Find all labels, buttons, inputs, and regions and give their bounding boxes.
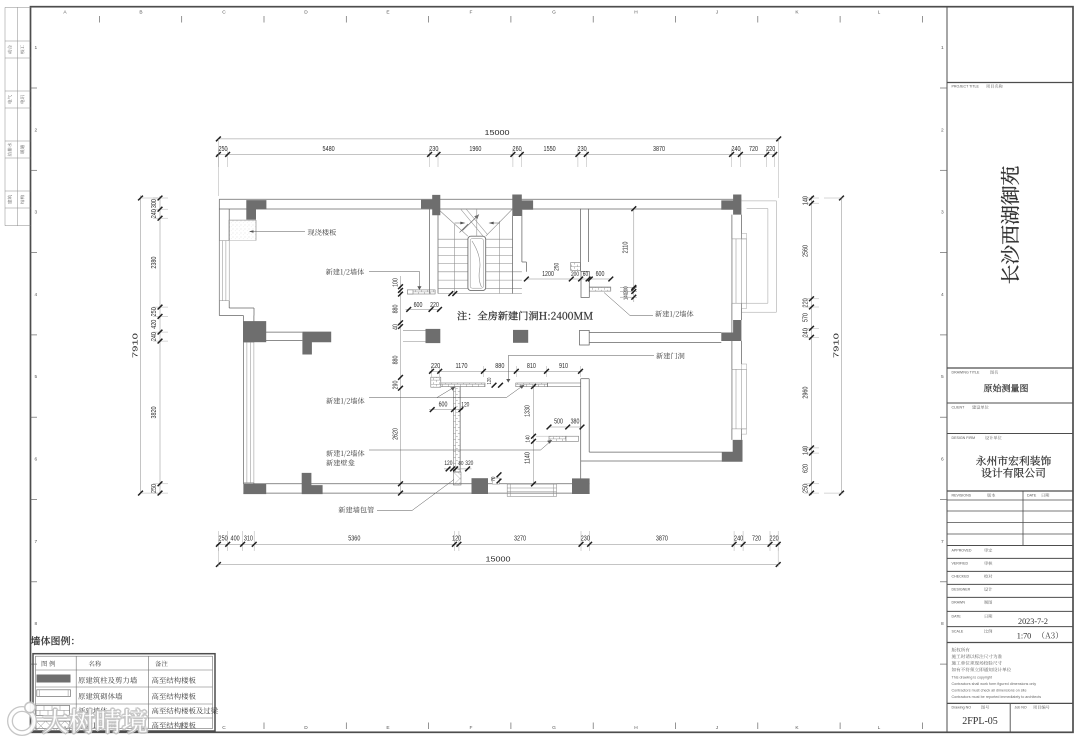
svg-text:G: G	[552, 725, 556, 731]
svg-text:DRAWING TITLE: DRAWING TITLE	[952, 371, 981, 375]
new 1/2 wall near stair (hatch E)	[407, 290, 435, 294]
new 1/2 wall F (top-right room)	[589, 287, 611, 291]
svg-text:140: 140	[801, 446, 810, 455]
bottom-right room bottom wall	[589, 451, 742, 453]
stair left wall	[429, 209, 431, 294]
svg-text:Contractors must check all dim: Contractors must check all dimensions on…	[952, 689, 1027, 693]
svg-text:7: 7	[941, 539, 944, 545]
svg-text:1:70: 1:70	[1017, 631, 1032, 640]
chain 2110 top-right room	[633, 209, 635, 289]
svg-text:5480: 5480	[323, 144, 335, 153]
new wall A left end block	[431, 377, 441, 387]
grid dash marks right	[940, 87, 947, 89]
column top-left	[246, 200, 266, 220]
middle wall end cap square	[580, 330, 590, 345]
svg-text:250: 250	[219, 534, 228, 543]
svg-text:220: 220	[770, 534, 779, 543]
exterior top wall	[219, 198, 741, 200]
svg-text:1330: 1330	[525, 405, 532, 417]
column mid small (near middle wall opening)	[513, 330, 528, 343]
new wall A (left of door opening)	[441, 383, 485, 387]
label 新建1/2墙体 (left-mid) with leader	[326, 397, 364, 404]
watermark bottom-left	[10, 702, 149, 735]
svg-text:L: L	[878, 9, 881, 15]
exterior bottom wall of left room	[243, 483, 589, 485]
stair flight lines	[461, 210, 483, 237]
title block: drawing title section	[947, 367, 1073, 369]
svg-text:250: 250	[218, 144, 227, 153]
svg-text:VERIFIED: VERIFIED	[952, 562, 969, 566]
svg-text:230: 230	[581, 534, 590, 543]
svg-text:E: E	[386, 725, 389, 731]
column gamma mid-left	[302, 332, 331, 355]
chain 1330/140/1140 right of wall C	[533, 387, 535, 484]
svg-text:1: 1	[941, 45, 944, 51]
svg-text:100: 100	[392, 278, 399, 287]
svg-text:120: 120	[452, 534, 461, 543]
label 新建墙包管 with leader	[339, 506, 374, 513]
svg-text:120: 120	[487, 378, 493, 385]
svg-text:230: 230	[578, 144, 587, 153]
svg-text:220: 220	[431, 361, 440, 370]
svg-text:600: 600	[414, 302, 423, 309]
svg-text:G: G	[552, 9, 556, 15]
svg-text:200: 200	[624, 286, 630, 293]
window left upper	[218, 241, 220, 301]
svg-text:7: 7	[35, 539, 38, 545]
left wall step	[229, 307, 254, 309]
svg-text:240: 240	[149, 209, 158, 218]
svg-text:D: D	[304, 9, 308, 15]
svg-text:140: 140	[624, 293, 630, 300]
title block: project title section	[947, 82, 1073, 84]
title block: design firm section	[947, 433, 1073, 435]
svg-text:6: 6	[941, 457, 944, 463]
svg-text:200: 200	[571, 271, 579, 278]
stair direction arrows	[455, 222, 500, 224]
balcony top-right outline	[741, 201, 776, 312]
small frame box left of window	[492, 478, 499, 484]
new 1/2 wall C vertical (ladder hatch)	[453, 387, 460, 472]
column stair-right	[512, 195, 533, 217]
svg-text:220: 220	[766, 144, 775, 153]
stair treads	[438, 238, 513, 240]
wall stub left of center column	[403, 330, 426, 332]
svg-text:DESIGN FIRM: DESIGN FIRM	[952, 436, 976, 440]
window right upper jambs	[741, 234, 746, 239]
svg-text:250: 250	[149, 307, 158, 316]
svg-text:240: 240	[734, 534, 743, 543]
horizontal chain 220/1170/880/810/910	[430, 370, 583, 372]
svg-text:220: 220	[801, 298, 810, 307]
label 新建1/2墙体 / 新建壁龛 with leaders	[326, 450, 364, 457]
svg-text:5: 5	[35, 374, 38, 380]
svg-text:880: 880	[392, 305, 399, 314]
project title text 长沙西湖御苑 (rotated)	[1001, 166, 1019, 283]
svg-text:SCALE: SCALE	[952, 630, 964, 634]
column left-wall middle	[243, 321, 266, 342]
svg-text:Job NO: Job NO	[1015, 706, 1027, 710]
tiny dim 120 in door opening	[492, 383, 497, 388]
svg-text:2380: 2380	[149, 257, 158, 269]
svg-text:F: F	[470, 9, 473, 15]
svg-text:3270: 3270	[514, 534, 526, 543]
svg-text:230: 230	[429, 144, 438, 153]
column center	[426, 329, 441, 343]
niche wall D (新建壁龛)	[549, 436, 566, 441]
svg-text:60: 60	[583, 271, 589, 278]
svg-text:8: 8	[941, 621, 944, 627]
svg-text:720: 720	[749, 144, 758, 153]
window left lower	[242, 342, 244, 483]
legend row3: new wall (brick hatch)	[36, 706, 70, 716]
svg-text:380: 380	[571, 419, 580, 426]
legend heading 墙体图例	[31, 636, 74, 645]
title block left boundary	[946, 7, 948, 733]
svg-text:3870: 3870	[656, 534, 668, 543]
left dimension total 7910	[140, 195, 142, 493]
stair newel	[468, 236, 486, 290]
svg-text:DATE: DATE	[1027, 494, 1037, 498]
column stair-left	[421, 195, 440, 215]
grid dash marks left	[31, 87, 38, 89]
svg-text:1: 1	[35, 45, 38, 51]
svg-text:DATE: DATE	[952, 615, 962, 619]
window right lower jambs	[741, 364, 746, 369]
svg-text:Contractors must be reported i: Contractors must be reported immediately…	[952, 695, 1042, 699]
interior wall left-middle (y=332..341)	[254, 331, 303, 333]
svg-text:250: 250	[554, 262, 561, 270]
stair flight diagonals	[438, 209, 468, 236]
small dims 200/140 near hatch F	[633, 289, 635, 303]
title block: copyright notes	[947, 642, 1073, 644]
svg-text:600: 600	[596, 271, 605, 278]
legend row1: original column/shear wall	[37, 675, 71, 683]
chain 500/380 above niche	[549, 426, 582, 428]
title block: drawing number section	[947, 702, 1073, 704]
interior vertical chain x=400	[400, 276, 402, 493]
svg-text:2: 2	[35, 127, 38, 133]
svg-text:720: 720	[752, 534, 761, 543]
svg-text:15000: 15000	[485, 128, 510, 137]
svg-text:D: D	[304, 725, 308, 731]
svg-text:H: H	[634, 9, 638, 15]
pipe-wrap wall H (新建墙包管)	[453, 472, 461, 485]
svg-text:1200: 1200	[542, 271, 554, 278]
svg-text:140: 140	[526, 435, 532, 442]
svg-text:DRAWN: DRAWN	[952, 601, 966, 605]
column top-right	[721, 195, 741, 215]
signature strip (top-left discipline table)	[5, 6, 31, 8]
grid tick marks top	[98, 16, 100, 23]
chain 600/220 at stair-left	[406, 308, 441, 310]
svg-text:290: 290	[392, 381, 399, 390]
svg-text:6: 6	[35, 457, 38, 463]
svg-text:3: 3	[35, 210, 38, 216]
svg-text:B: B	[139, 9, 142, 15]
right dimension segments	[811, 196, 813, 495]
svg-text:5360: 5360	[348, 534, 360, 543]
svg-text:40: 40	[392, 324, 399, 330]
svg-text:240: 240	[801, 328, 810, 337]
exterior left wall upper section	[218, 199, 220, 315]
legend row2: original masonry wall	[37, 690, 71, 697]
label 现浇楼板 with leader	[250, 231, 305, 233]
svg-text:7910: 7910	[832, 333, 841, 358]
svg-text:2023-7-2: 2023-7-2	[1018, 617, 1048, 626]
svg-text:1170: 1170	[455, 361, 467, 370]
title block: revisions table	[947, 490, 1073, 492]
column bottom-left corner	[243, 484, 266, 494]
legend row4: new 1/2 wall (cross hatch)	[36, 721, 70, 731]
svg-text:2620: 2620	[392, 428, 399, 440]
small hatch G near stair wall	[571, 263, 581, 271]
svg-text:3870: 3870	[653, 144, 665, 153]
svg-text:1960: 1960	[469, 144, 481, 153]
plain wall segment right of wall B	[548, 383, 581, 387]
tiny dim 70 at bottom frame box	[497, 472, 502, 477]
stair winder verticals	[454, 224, 456, 294]
title block: client section	[947, 402, 1073, 404]
svg-text:F: F	[470, 725, 473, 731]
label 新建门洞 with leader	[656, 352, 684, 359]
top-right room left wall	[580, 209, 582, 272]
svg-text:2FPL-05: 2FPL-05	[962, 716, 998, 727]
svg-text:2960: 2960	[801, 387, 810, 399]
svg-text:140: 140	[801, 196, 810, 205]
column bottom center	[472, 478, 489, 494]
exterior right wall	[731, 215, 733, 440]
svg-text:4: 4	[35, 292, 38, 298]
svg-text:570: 570	[801, 313, 810, 322]
svg-text:APPROVED: APPROVED	[952, 549, 972, 553]
svg-text:CLIENT: CLIENT	[952, 406, 966, 410]
svg-text:80: 80	[459, 461, 464, 467]
svg-text:4: 4	[941, 292, 944, 298]
label 新建1/2墙体 (top) with leader	[326, 268, 364, 275]
top dimension segments	[216, 153, 776, 155]
svg-text:400: 400	[231, 534, 240, 543]
svg-text:120: 120	[444, 460, 452, 467]
window bottom	[507, 484, 556, 496]
svg-text:5: 5	[941, 374, 944, 380]
svg-text:260: 260	[513, 144, 522, 153]
svg-text:220: 220	[430, 302, 439, 309]
exterior left wall lower section	[242, 316, 244, 484]
svg-text:1550: 1550	[544, 144, 556, 153]
svg-text:310: 310	[244, 534, 253, 543]
svg-text:Drawing NO: Drawing NO	[952, 706, 972, 710]
svg-text:620: 620	[801, 464, 810, 473]
svg-text:2110: 2110	[623, 242, 630, 254]
svg-text:C: C	[222, 725, 226, 731]
svg-text:880: 880	[392, 356, 399, 365]
column bottom T	[302, 473, 323, 494]
svg-text:240: 240	[149, 332, 158, 341]
svg-text:PROJECT TITLE: PROJECT TITLE	[952, 85, 980, 89]
column bottom right-of-center	[572, 478, 590, 494]
label 新建1/2墙体 (right) with leader	[655, 310, 693, 317]
svg-text:3820: 3820	[149, 406, 158, 418]
title block: approval rows	[947, 545, 1073, 547]
svg-text:DESIGNER: DESIGNER	[952, 588, 971, 592]
middle wall right part	[589, 332, 721, 334]
left dimension segments	[159, 196, 161, 495]
svg-text:500: 500	[554, 419, 563, 426]
svg-text:Contractors shall work form fi: Contractors shall work form figured dime…	[952, 682, 1037, 686]
cast-in-place slab (现浇楼板) stippled area	[229, 220, 256, 240]
svg-text:420: 420	[149, 320, 158, 329]
svg-text:2: 2	[941, 127, 944, 133]
svg-text:CHECKED: CHECKED	[952, 575, 970, 579]
chain 120/80/320 pipe wrap	[444, 468, 472, 470]
svg-text:240: 240	[731, 144, 740, 153]
bottom dimension total 15000	[218, 564, 778, 566]
svg-text:250: 250	[801, 484, 810, 493]
svg-text:H: H	[634, 725, 638, 731]
svg-text:70: 70	[491, 477, 497, 482]
svg-text:810: 810	[527, 361, 536, 370]
svg-text:This drawing is copyright: This drawing is copyright	[952, 676, 993, 680]
svg-text:2560: 2560	[801, 245, 810, 257]
right dimension total 7910	[841, 198, 843, 493]
svg-text:910: 910	[559, 361, 568, 370]
central note	[457, 311, 592, 320]
window right lower	[731, 369, 733, 429]
svg-text:600: 600	[439, 402, 448, 409]
grid tick marks bottom	[98, 723, 100, 730]
bottom-right room left wall	[580, 379, 582, 484]
column right-wall middle	[721, 320, 741, 341]
chain 600/120 below wall A	[429, 409, 463, 411]
svg-text:E: E	[386, 9, 389, 15]
svg-text:120: 120	[461, 402, 469, 409]
svg-text:3: 3	[941, 210, 944, 216]
column bottom-right corner	[722, 440, 743, 462]
svg-text:1140: 1140	[525, 452, 532, 464]
svg-text:250: 250	[149, 484, 158, 493]
window right upper	[731, 239, 733, 303]
svg-text:8: 8	[35, 621, 38, 627]
bottom dimension segments	[216, 543, 780, 545]
stair break slash with arrow	[460, 215, 480, 233]
chain 1200/250/200/60/600 at stair-right	[526, 278, 610, 280]
svg-text:300: 300	[149, 199, 158, 208]
svg-text:7910: 7910	[131, 333, 140, 358]
top dimension total 15000	[218, 138, 778, 140]
new wall B (right of door opening)	[516, 383, 548, 387]
svg-text:320: 320	[465, 460, 473, 467]
svg-text:C: C	[222, 9, 226, 15]
stair right wall below column	[512, 216, 514, 294]
svg-text:15000: 15000	[486, 555, 511, 564]
svg-text:REVISIONS: REVISIONS	[952, 494, 972, 498]
legend table	[33, 654, 215, 731]
svg-text:880: 880	[495, 361, 504, 370]
svg-text:L: L	[878, 725, 881, 731]
